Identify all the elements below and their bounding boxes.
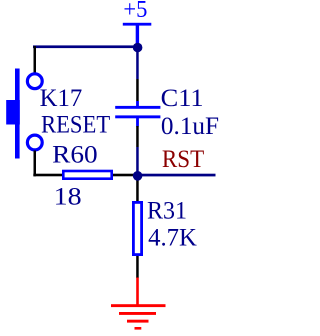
svg-text:R31: R31: [147, 198, 187, 225]
svg-text:+5: +5: [123, 0, 147, 23]
svg-text:18: 18: [54, 183, 82, 210]
svg-text:RESET: RESET: [41, 112, 110, 139]
svg-text:4.7K: 4.7K: [148, 225, 197, 252]
svg-text:RST: RST: [162, 146, 204, 173]
svg-text:0.1uF: 0.1uF: [161, 113, 219, 140]
svg-text:K17: K17: [40, 85, 83, 112]
svg-text:C11: C11: [161, 85, 204, 112]
svg-text:R60: R60: [52, 142, 97, 169]
